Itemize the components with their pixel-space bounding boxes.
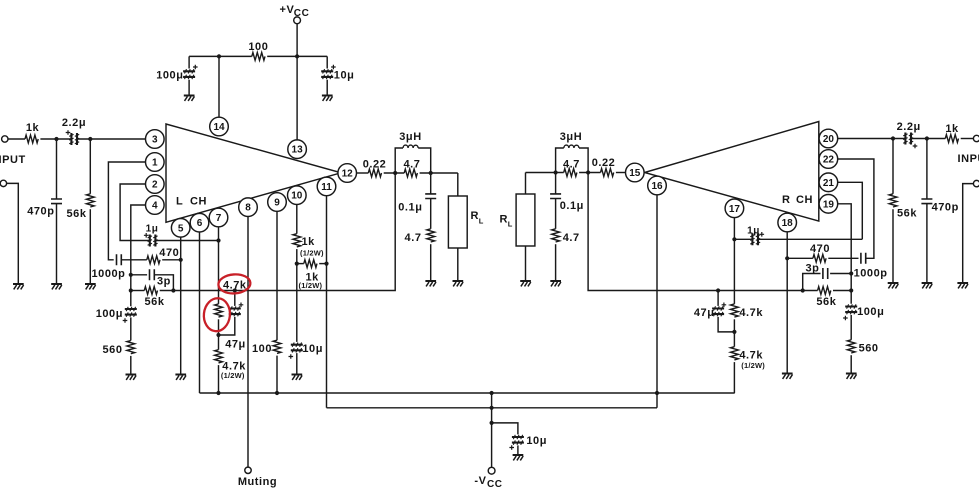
wire 56k feedback row — [160, 173, 396, 291]
load RL (L) — [448, 173, 467, 280]
inductor 3uH (L) — [395, 145, 431, 173]
wire rail L2 — [327, 407, 658, 409]
pin 5 — [171, 219, 190, 238]
svg-text:17: 17 — [729, 204, 741, 215]
resistor 470 (L feedback) — [147, 256, 160, 264]
ground — [550, 281, 561, 286]
wire — [40, 138, 71, 140]
svg-text:47μ: 47μ — [694, 307, 715, 319]
svg-text:(1/2W): (1/2W) — [299, 281, 323, 290]
ground — [175, 375, 186, 380]
op-amp U1 L CH triangle — [166, 124, 341, 222]
wire — [8, 138, 25, 140]
node (pin16 col/L1) — [655, 391, 659, 395]
svg-text:4.7k: 4.7k — [223, 279, 247, 291]
pin 9 — [268, 193, 287, 212]
svg-text:CC: CC — [294, 8, 310, 19]
wire — [850, 315, 852, 340]
resistor 4.7k 1/2W (R) — [731, 347, 739, 360]
wire pin10 column — [296, 205, 298, 234]
resistor 1k (R input series) — [945, 135, 958, 143]
pin 10 — [288, 186, 307, 205]
wire pin19 column — [838, 204, 851, 304]
pin 12 — [338, 164, 357, 183]
load RL (R) — [516, 173, 535, 281]
wire pin2 down — [120, 184, 150, 241]
svg-text:47μ: 47μ — [225, 338, 246, 350]
svg-text:1μ: 1μ — [146, 224, 159, 235]
wire — [911, 138, 945, 140]
pin 21 — [819, 173, 838, 192]
wire — [130, 356, 132, 374]
wire — [155, 240, 218, 242]
svg-text:18: 18 — [782, 218, 794, 229]
wire — [77, 138, 145, 140]
svg-text:470: 470 — [810, 243, 830, 255]
svg-text:3μH: 3μH — [399, 131, 421, 143]
capacitor 1000p (L) — [117, 254, 122, 265]
svg-text:8: 8 — [245, 203, 251, 214]
node (pin17/47u R) — [732, 330, 736, 334]
node (pin19 col/3p) — [849, 271, 853, 275]
wire — [384, 172, 405, 174]
resistor 100 (VCC filter) — [252, 53, 265, 61]
wire pin6 column — [199, 232, 201, 393]
wire — [850, 355, 852, 373]
pin 20 — [819, 129, 838, 148]
node (pin10/1k row) — [295, 262, 299, 266]
svg-text:2: 2 — [152, 180, 158, 191]
wire pin9 column — [276, 212, 278, 341]
capacitor 10u (pin10) — [289, 343, 303, 359]
ground — [782, 374, 793, 379]
wire — [296, 249, 298, 342]
svg-text:56k: 56k — [144, 296, 164, 308]
pin 3 — [146, 130, 165, 149]
svg-text:R: R — [471, 210, 480, 222]
ground — [888, 283, 899, 288]
capacitor 470p (R input) — [921, 139, 932, 283]
svg-text:+V: +V — [280, 4, 295, 16]
wire pin17 column — [733, 218, 735, 304]
svg-text:4.7k: 4.7k — [739, 350, 763, 362]
wire +VCC rail — [189, 55, 252, 57]
pin 18 — [778, 213, 797, 232]
svg-text:16: 16 — [651, 181, 663, 192]
svg-text:7: 7 — [216, 213, 222, 224]
svg-text:4.7: 4.7 — [404, 159, 421, 171]
svg-text:100: 100 — [252, 343, 272, 355]
wire — [162, 259, 181, 261]
svg-text:(1/2W): (1/2W) — [741, 361, 765, 370]
wire — [526, 172, 564, 174]
svg-text:L: L — [176, 196, 183, 208]
capacitor 100u (R pin19) — [843, 304, 857, 320]
svg-text:L: L — [508, 220, 513, 229]
wire rail L1 (-VCC return) — [200, 392, 735, 394]
resistor 0.22 (L output) — [368, 169, 381, 177]
svg-text:470: 470 — [159, 247, 179, 259]
svg-text:21: 21 — [823, 178, 835, 189]
wire pin15 output — [616, 172, 625, 174]
node (-VCC/L1) — [490, 391, 494, 395]
resistor 470 (R feedback) — [787, 254, 858, 262]
svg-text:3: 3 — [152, 135, 158, 146]
node (56k row/pin19 col) — [849, 288, 853, 292]
node (10u branch) — [490, 421, 494, 425]
svg-text:0.1μ: 0.1μ — [560, 200, 584, 212]
svg-text:1000p: 1000p — [92, 268, 126, 280]
wire pin11 column — [326, 196, 328, 408]
ground — [520, 281, 531, 286]
svg-text:10μ: 10μ — [334, 70, 355, 82]
wire — [7, 183, 19, 283]
inductor 3uH (R) — [556, 145, 589, 172]
svg-text:470p: 470p — [27, 206, 54, 218]
ground — [184, 96, 195, 101]
svg-text:15: 15 — [629, 168, 641, 179]
svg-text:100μ: 100μ — [96, 308, 123, 320]
svg-text:14: 14 — [213, 122, 225, 133]
node (pin7/47u) — [216, 333, 220, 337]
svg-text:11: 11 — [321, 182, 332, 193]
resistor 1k 1/2W vertical (pin10) — [293, 234, 301, 247]
svg-text:470p: 470p — [932, 202, 959, 214]
svg-text:10: 10 — [291, 191, 303, 202]
svg-text:13: 13 — [292, 145, 304, 156]
svg-text:1000p: 1000p — [854, 268, 888, 280]
svg-text:Muting: Muting — [238, 476, 277, 488]
resistor 4.7k (R muting) — [731, 304, 739, 317]
svg-text:2.2μ: 2.2μ — [62, 117, 86, 129]
svg-text:19: 19 — [823, 199, 835, 210]
svg-text:1: 1 — [152, 158, 158, 169]
node (47u R branch) — [716, 288, 720, 292]
resistor 4.7 (L output) — [404, 169, 417, 177]
svg-text:(1/2W): (1/2W) — [221, 371, 245, 380]
pin 14 — [210, 117, 229, 136]
wire — [276, 356, 278, 393]
svg-text:4: 4 — [152, 201, 158, 212]
svg-text:2.2μ: 2.2μ — [897, 121, 921, 133]
wire pin20 input row — [838, 138, 905, 140]
capacitor 3p (L) — [131, 269, 174, 290]
input terminal R (shield) — [963, 180, 979, 282]
resistor 1k 1/2W horizontal (pin10-pin11) — [297, 260, 327, 268]
svg-text:22: 22 — [823, 155, 835, 166]
node B' (R output) — [554, 170, 558, 174]
node (1u/pin17 col) — [732, 237, 736, 241]
svg-text:100μ: 100μ — [156, 70, 183, 82]
svg-text:0.22: 0.22 — [592, 157, 616, 169]
node (pin4/56k row) — [129, 288, 133, 292]
node (pin14 rail) — [217, 54, 221, 58]
svg-text:56k: 56k — [897, 208, 917, 220]
wire R feedback riser — [588, 173, 818, 291]
svg-text:(1/2W): (1/2W) — [300, 249, 324, 258]
wire — [961, 138, 974, 140]
capacitor 2.2u (L input coupling) — [66, 130, 80, 145]
wire — [430, 244, 432, 280]
capacitor 3p (R) — [803, 268, 852, 291]
wire — [296, 353, 298, 374]
wire pin8 muting column — [247, 217, 249, 467]
ground — [513, 455, 524, 460]
annotation red ellipse around 4.7k resistor — [202, 297, 231, 333]
input terminal R (hot) — [973, 135, 979, 141]
pin 8 — [239, 198, 258, 217]
wire — [121, 259, 147, 261]
terminal Muting — [245, 467, 251, 473]
node (pin13 rail) — [295, 54, 299, 58]
wire — [733, 362, 735, 393]
node (3p R/56k row) — [801, 288, 805, 292]
ground — [292, 375, 303, 380]
ground — [957, 283, 968, 288]
wire -VCC column — [491, 393, 493, 467]
capacitor 2.2u (R input) — [903, 133, 917, 149]
resistor 100 (L pin9) — [273, 340, 281, 353]
svg-text:100: 100 — [248, 41, 268, 53]
svg-text:6: 6 — [197, 218, 203, 229]
node (-VCC/L2) — [490, 406, 494, 410]
wire — [833, 290, 851, 292]
svg-text:0.22: 0.22 — [363, 159, 387, 171]
svg-text:4.7k: 4.7k — [739, 307, 763, 319]
node (pin9 col/L1) — [275, 391, 279, 395]
node B (L output) — [429, 171, 433, 175]
resistor 560 (L) — [127, 341, 135, 354]
wire pin4 column — [131, 205, 145, 306]
svg-text:4.7: 4.7 — [563, 232, 580, 244]
capacitor 0.1u (R zobel) — [550, 173, 561, 229]
node (56k R input) — [891, 136, 895, 140]
capacitor 0.1u (L zobel) — [425, 173, 436, 229]
ground — [453, 281, 464, 286]
pin 22 — [819, 150, 838, 169]
node A (L feedback tap) — [393, 171, 397, 175]
capacitor 10u (VCC) — [321, 56, 336, 94]
terminal +VCC — [294, 17, 301, 57]
terminal -VCC — [488, 467, 495, 474]
pin 19 — [819, 195, 838, 214]
capacitor 1000p (R) — [838, 159, 874, 264]
wire — [130, 317, 132, 340]
node (junction 2.2u/56k) — [88, 137, 92, 141]
wire — [555, 244, 557, 280]
resistor 560 (R) — [847, 340, 855, 353]
resistor 56k (L input bias) — [86, 139, 94, 283]
capacitor 470p (L input) — [51, 139, 62, 283]
ground — [922, 283, 933, 288]
node (47u branch) — [233, 288, 237, 292]
svg-text:CC: CC — [487, 479, 503, 490]
wire pin13 up — [296, 56, 298, 139]
svg-text:R: R — [782, 194, 791, 206]
node (junction 1k/470p/2.2u) — [54, 137, 58, 141]
node A' (R feedback tap) — [586, 170, 590, 174]
svg-text:R: R — [500, 213, 509, 225]
svg-text:1k: 1k — [26, 122, 40, 134]
wire — [733, 319, 735, 346]
svg-text:CH: CH — [796, 194, 813, 206]
pin 4 — [146, 196, 165, 215]
pin 15 — [626, 163, 645, 182]
svg-text:3p: 3p — [157, 276, 171, 288]
wire — [267, 55, 327, 57]
ground — [13, 284, 24, 289]
pin 13 — [288, 140, 307, 159]
svg-text:INPUT: INPUT — [958, 153, 979, 165]
svg-text:10μ: 10μ — [526, 435, 547, 447]
node (470p R input) — [925, 136, 929, 140]
wire pin16 column — [656, 195, 658, 408]
capacitor 47u (L) — [219, 291, 244, 336]
node (470 to pin5 column) — [179, 258, 183, 262]
svg-text:1k: 1k — [302, 236, 316, 248]
svg-text:560: 560 — [859, 343, 879, 355]
resistor 56k (L feedback) — [131, 287, 158, 295]
svg-text:1k: 1k — [945, 123, 959, 135]
resistor 4.7 (R output) — [564, 169, 577, 177]
pin 1 — [146, 153, 165, 172]
op-amp U1 R CH triangle — [645, 122, 819, 222]
svg-text:0.1μ: 0.1μ — [398, 202, 422, 214]
node (pin18/470 row) — [785, 256, 789, 260]
capacitor 47u (R) — [712, 291, 734, 332]
wire pin18 column — [786, 232, 788, 373]
svg-text:56k: 56k — [816, 296, 836, 308]
resistor 0.22 (R output) — [601, 169, 614, 177]
input terminal L (shield) — [0, 180, 6, 186]
svg-text:L: L — [479, 217, 484, 226]
resistor 1k (L input series) — [25, 135, 38, 143]
wire pin5 column — [180, 237, 182, 373]
resistor 4.7 (R zobel) — [552, 229, 560, 242]
ground — [846, 374, 857, 379]
svg-text:-V: -V — [474, 475, 486, 487]
node (1u to pin7 column) — [216, 238, 220, 242]
ground — [51, 284, 62, 289]
annotation red ellipse around 4.7k label — [218, 273, 251, 294]
wire pin1 to 1000p — [108, 162, 145, 260]
resistor 4.7 (L zobel) — [427, 229, 435, 242]
svg-text:4.7: 4.7 — [405, 232, 422, 244]
pin 17 — [725, 199, 744, 218]
wire pin7 column — [218, 227, 220, 304]
svg-text:1μ: 1μ — [747, 225, 760, 236]
wire — [218, 365, 220, 393]
pin 11 — [317, 177, 336, 196]
capacitor 10u (-VCC) — [492, 423, 524, 454]
wire pin14 up — [218, 56, 220, 117]
resistor 4.7k 1/2W (L) — [215, 350, 223, 363]
capacitor 1u (L) — [144, 233, 158, 247]
ground — [126, 375, 137, 380]
resistor 56k (R feedback) — [818, 287, 831, 295]
node (1k row/pin11) — [324, 262, 328, 266]
capacitor 1u (R) — [734, 232, 862, 245]
resistor 4.7k (L muting, circled) — [215, 304, 223, 317]
svg-text:5: 5 — [178, 223, 184, 234]
pin 16 — [648, 176, 667, 195]
svg-text:4.7: 4.7 — [563, 159, 580, 171]
svg-text:3μH: 3μH — [560, 131, 582, 143]
wire — [218, 319, 220, 349]
wire pin21 to 1u — [838, 182, 862, 239]
capacitor 100u (L pin4) — [123, 307, 137, 323]
pin 7 — [209, 208, 228, 227]
svg-text:INPUT: INPUT — [0, 154, 26, 166]
ground — [425, 281, 436, 286]
svg-text:100μ: 100μ — [857, 306, 884, 318]
svg-text:20: 20 — [823, 134, 835, 145]
node (pin7 col/L1) — [216, 391, 220, 395]
pin 6 — [190, 213, 209, 232]
svg-text:560: 560 — [102, 344, 122, 356]
ground — [322, 96, 333, 101]
wire — [579, 172, 600, 174]
wire — [420, 172, 458, 174]
node (3p to 56k row) — [171, 288, 175, 292]
node (pin4/3p) — [129, 273, 133, 277]
svg-text:12: 12 — [342, 169, 354, 180]
wire pin12 output — [357, 172, 369, 174]
svg-text:56k: 56k — [66, 208, 86, 220]
svg-text:10μ: 10μ — [302, 343, 323, 355]
svg-text:9: 9 — [274, 198, 280, 209]
ground — [85, 284, 96, 289]
svg-text:CH: CH — [190, 196, 207, 208]
pin 2 — [146, 175, 165, 194]
svg-text:3p: 3p — [806, 262, 820, 274]
capacitor 100u (VCC) — [183, 56, 198, 94]
input terminal L (hot) — [2, 136, 8, 142]
resistor 56k (R input bias) — [889, 139, 897, 283]
